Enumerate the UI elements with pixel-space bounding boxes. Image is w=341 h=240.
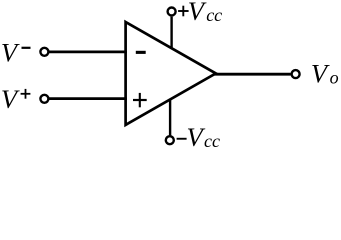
op-amp U1 non-inverting input marker (+) — [133, 93, 147, 107]
terminal: Vo output — [292, 70, 300, 78]
label -Vcc — [177, 122, 220, 152]
label Vo (output) — [311, 58, 339, 88]
op-amp U1 inverting input marker (-) — [136, 51, 146, 54]
svg-text:V: V — [1, 37, 20, 67]
label +Vcc — [178, 0, 222, 26]
svg-text:V: V — [187, 122, 206, 152]
wire: +Vcc supply — [170, 17, 172, 49]
label V+ (non-inverting input) — [1, 84, 31, 114]
svg-text:V: V — [1, 84, 20, 114]
svg-text:o: o — [330, 67, 339, 87]
terminal: -Vcc supply — [166, 136, 174, 144]
op-amp U1 body — [126, 22, 216, 125]
terminal: V- input — [40, 48, 48, 56]
wire: -Vcc supply — [169, 100, 171, 135]
terminal: +Vcc supply — [168, 8, 176, 16]
wire: output — [214, 73, 291, 76]
wire: non-inverting input — [49, 97, 127, 100]
svg-text:cc: cc — [206, 5, 222, 25]
wire: inverting input — [49, 51, 127, 54]
terminal: V+ input — [40, 95, 48, 103]
label V- (inverting input) — [1, 37, 31, 67]
svg-text:cc: cc — [204, 131, 220, 151]
svg-text:V: V — [188, 0, 207, 26]
svg-text:V: V — [311, 58, 330, 88]
